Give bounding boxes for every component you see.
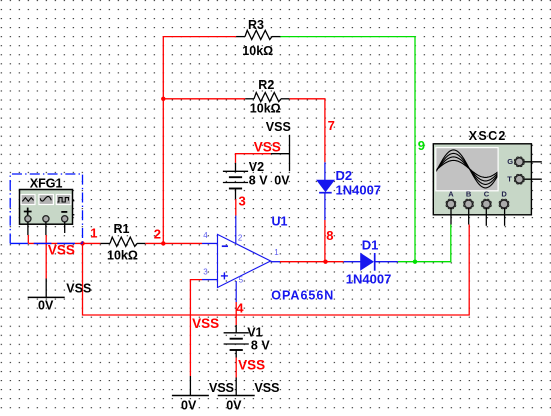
svg-text:1N4007: 1N4007 [346,272,392,287]
svg-text:A: A [448,190,454,199]
svg-text:4: 4 [203,231,208,240]
svg-text:7: 7 [328,118,335,133]
svg-text:OPA656N: OPA656N [271,289,334,303]
svg-text:5: 5 [239,275,244,284]
svg-text:9: 9 [418,138,425,153]
svg-text:1: 1 [90,226,97,241]
svg-text:XSC2: XSC2 [469,129,507,143]
svg-text:R2: R2 [258,78,274,92]
svg-text:VSS: VSS [209,381,234,395]
svg-text:R3: R3 [248,18,264,32]
svg-text:8 V: 8 V [249,173,268,187]
svg-text:V2: V2 [249,160,264,174]
svg-text:4: 4 [236,301,244,316]
svg-text:VSS: VSS [254,139,281,154]
svg-text:10kΩ: 10kΩ [107,248,138,262]
svg-text:U1: U1 [272,214,288,228]
svg-text:VSS: VSS [266,120,291,134]
svg-text:VSS: VSS [48,243,75,258]
svg-text:1: 1 [274,248,279,257]
svg-text:G: G [507,157,513,166]
svg-text:VSS: VSS [254,381,279,395]
svg-text:VSS: VSS [238,358,265,373]
svg-text:C: C [484,190,490,199]
svg-text:0V: 0V [274,174,290,188]
svg-text:D1: D1 [362,237,379,252]
svg-text:8: 8 [326,228,333,243]
svg-text:0V: 0V [38,298,54,312]
svg-text:3: 3 [239,194,246,209]
svg-text:T: T [507,175,512,184]
svg-text:10kΩ: 10kΩ [250,101,281,115]
svg-text:VSS: VSS [66,281,91,295]
svg-text:2: 2 [154,227,161,242]
svg-text:B: B [466,190,472,199]
svg-text:1N4007: 1N4007 [336,183,382,198]
svg-text:0V: 0V [181,398,197,412]
svg-text:D2: D2 [336,168,353,183]
svg-text:10kΩ: 10kΩ [242,44,273,58]
svg-text:VSS: VSS [192,316,219,331]
svg-text:8 V: 8 V [251,338,270,352]
svg-text:0V: 0V [226,398,242,412]
svg-text:D: D [501,190,507,199]
svg-text:R1: R1 [114,222,130,236]
svg-text:2: 2 [238,233,243,242]
svg-text:3: 3 [203,267,208,276]
svg-text:XFG1: XFG1 [30,176,63,190]
